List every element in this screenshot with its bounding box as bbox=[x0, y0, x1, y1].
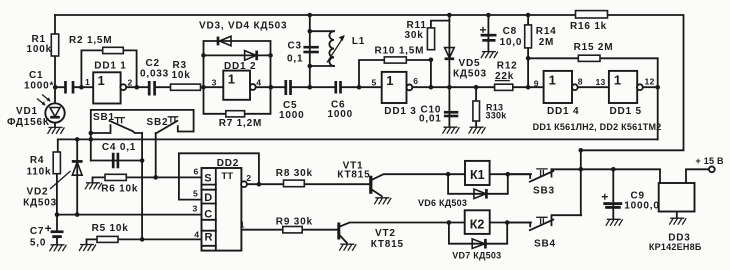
svg-text:VD7 КД503: VD7 КД503 bbox=[452, 251, 501, 261]
svg-text:13: 13 bbox=[596, 77, 606, 87]
capacitor C1 bbox=[24, 70, 73, 94]
svg-text:SB1: SB1 bbox=[93, 112, 115, 123]
junction at 203.5,55.4 bbox=[201, 53, 206, 58]
diode VD5 bbox=[445, 48, 487, 80]
capacitor C6 bbox=[328, 81, 353, 120]
trigger DD2 bbox=[193, 158, 252, 251]
svg-text:5,0: 5,0 bbox=[30, 238, 46, 249]
ground at R6 bbox=[85, 183, 102, 190]
capacitor C8 bbox=[480, 26, 522, 48]
junction at 203.5,87.2 bbox=[201, 85, 206, 90]
svg-text:1: 1 bbox=[85, 77, 90, 87]
pushbutton SB4 bbox=[507, 215, 581, 249]
svg-text:R5 10k: R5 10k bbox=[92, 223, 129, 234]
relay K2 bbox=[465, 210, 490, 234]
svg-text:R15 2M: R15 2M bbox=[574, 42, 614, 53]
svg-text:1: 1 bbox=[386, 73, 393, 88]
svg-text:R12: R12 bbox=[497, 61, 518, 72]
wire R4 top lead bbox=[56, 139, 59, 214]
svg-text:R8 30k: R8 30k bbox=[276, 168, 313, 179]
junction at 580.8,169.3 bbox=[579, 167, 584, 172]
svg-text:5: 5 bbox=[372, 77, 377, 87]
pushbutton SB3 bbox=[508, 169, 555, 197]
junction at 507.2,222.5 bbox=[505, 220, 510, 225]
svg-text:330k: 330k bbox=[486, 110, 508, 120]
resistor R2 bbox=[69, 35, 123, 54]
resistor R9 bbox=[276, 217, 313, 233]
svg-text:SB2: SB2 bbox=[147, 117, 169, 128]
junction at 309.8,87.2 bbox=[308, 85, 313, 90]
junction at 142.1,239.4 bbox=[140, 237, 145, 242]
svg-text:R16 1k: R16 1k bbox=[570, 21, 607, 32]
svg-text:DD1 К561ЛН2, DD2 К561ТМ2: DD1 К561ЛН2, DD2 К561ТМ2 bbox=[533, 122, 662, 132]
junction at 449.4,15 bbox=[447, 13, 452, 18]
svg-text:2M: 2M bbox=[539, 37, 555, 48]
svg-text:C4 0,1: C4 0,1 bbox=[102, 142, 136, 153]
svg-text:R10 1,5M: R10 1,5M bbox=[375, 45, 425, 56]
svg-text:6: 6 bbox=[194, 167, 199, 177]
svg-text:2: 2 bbox=[128, 78, 133, 88]
capacitor C2 bbox=[140, 58, 169, 96]
svg-text:КР142ЕН8Б: КР142ЕН8Б bbox=[649, 242, 702, 252]
svg-text:R4: R4 bbox=[30, 155, 44, 166]
ground under R13 bbox=[469, 127, 486, 134]
svg-text:VT2: VT2 bbox=[375, 228, 396, 239]
wire R1 vertical lead bbox=[54, 15, 56, 87]
wire K2 row bbox=[449, 223, 531, 244]
capacitor C7 bbox=[30, 215, 64, 249]
svg-text:2: 2 bbox=[246, 173, 251, 183]
ground under C8 bbox=[481, 52, 498, 59]
junction at 309.8,66 bbox=[308, 64, 313, 69]
wire VD3 VD4 antiparallel loop bbox=[204, 41, 271, 87]
resistor R15 bbox=[574, 42, 614, 61]
regulator DD3 bbox=[649, 183, 702, 252]
svg-text:DD1 2: DD1 2 bbox=[224, 61, 256, 72]
ground under C9 bbox=[606, 219, 623, 226]
svg-text:SB3: SB3 bbox=[533, 186, 555, 197]
junction at 57,214.6 bbox=[55, 212, 60, 217]
junction at 430.9,59.8 bbox=[429, 58, 434, 63]
svg-text:КТ815: КТ815 bbox=[371, 239, 404, 250]
wire L1 C3 tank branch bbox=[310, 15, 334, 87]
inductor L1 bbox=[327, 31, 365, 66]
junction at 270.5,55.4 bbox=[268, 53, 273, 58]
junction at 90.8,133 bbox=[89, 131, 94, 136]
svg-text:9: 9 bbox=[534, 78, 539, 88]
svg-text:C3: C3 bbox=[288, 41, 302, 52]
wire C9 branch bbox=[612, 169, 614, 218]
junction at 55.2,87.2 bbox=[53, 85, 58, 90]
svg-text:1: 1 bbox=[240, 220, 245, 230]
svg-text:12: 12 bbox=[645, 76, 655, 86]
svg-text:К1: К1 bbox=[470, 168, 485, 182]
svg-text:0,1: 0,1 bbox=[287, 54, 303, 65]
junction at 359,87.2 bbox=[357, 85, 362, 90]
junction at 476.1,87.2 bbox=[474, 85, 479, 90]
wire DD2 R input line bbox=[118, 238, 202, 240]
resistor R8 bbox=[276, 168, 313, 187]
svg-text:3: 3 bbox=[193, 203, 198, 213]
resistor R1 bbox=[27, 34, 59, 56]
svg-text:VD3, VD4 КД503: VD3, VD4 КД503 bbox=[199, 21, 287, 32]
junction at 580.8,150.3 bbox=[579, 148, 584, 153]
wire regulated supply run bbox=[552, 169, 709, 183]
junction at 77.2,214.6 bbox=[75, 212, 80, 217]
svg-text:4: 4 bbox=[256, 77, 261, 87]
svg-text:КД503: КД503 bbox=[23, 198, 57, 209]
svg-text:DD1 4: DD1 4 bbox=[547, 106, 579, 117]
wire top supply rail bbox=[55, 15, 684, 150]
svg-text:DD2: DD2 bbox=[217, 158, 239, 169]
zener diode VD2 bbox=[23, 161, 83, 208]
wire VD2 branch bbox=[76, 139, 78, 214]
pushbutton SB1 bbox=[91, 112, 142, 133]
svg-text:C8: C8 bbox=[503, 26, 517, 37]
svg-text:R9 30k: R9 30k bbox=[276, 217, 313, 228]
wire DD2 output 2 to R8 bbox=[259, 183, 369, 185]
inverter DD1.2 bbox=[212, 61, 262, 100]
junction at 77.2,139.4 bbox=[75, 137, 80, 142]
svg-text:10,0: 10,0 bbox=[500, 37, 523, 48]
junction at 448.1,174.2 bbox=[446, 172, 451, 177]
capacitor C5 bbox=[279, 80, 304, 121]
svg-text:VD2: VD2 bbox=[27, 187, 49, 198]
wire VT1 collector and emitter bbox=[372, 174, 448, 196]
svg-text:1000: 1000 bbox=[328, 109, 353, 120]
capacitor C9 bbox=[602, 191, 660, 212]
junction at 90.8,139.4 bbox=[89, 137, 94, 142]
svg-text:3: 3 bbox=[212, 78, 217, 88]
svg-text:SB4: SB4 bbox=[534, 239, 556, 250]
svg-text:КД503: КД503 bbox=[453, 69, 487, 80]
ground at VT1 emitter bbox=[374, 198, 391, 205]
wire R7 feedback loop bbox=[204, 87, 271, 114]
svg-text:D: D bbox=[204, 192, 212, 204]
svg-text:DD1 1: DD1 1 bbox=[94, 61, 126, 72]
resistor R7 bbox=[219, 111, 262, 129]
wire R14 branch bbox=[527, 15, 529, 87]
capacitor C4 bbox=[102, 142, 136, 168]
wire VD5 vertical bbox=[448, 15, 450, 87]
wire K1 row bbox=[448, 174, 531, 194]
wire R2 feedback loop bbox=[81, 50, 136, 87]
svg-text:L1: L1 bbox=[352, 36, 365, 47]
resistor R3 bbox=[171, 60, 201, 90]
capacitor C3 bbox=[287, 41, 319, 65]
svg-text:1000: 1000 bbox=[279, 110, 304, 121]
svg-text:КТ815: КТ815 bbox=[337, 169, 370, 180]
junction at 613.3,169.3 bbox=[611, 167, 616, 172]
junction at 309.8,15 bbox=[308, 13, 313, 18]
svg-text:C7: C7 bbox=[30, 226, 44, 237]
wire SB2 output vertical bbox=[155, 133, 157, 177]
wire DD2 S input line bbox=[126, 176, 201, 178]
wire DD3 ground stub bbox=[676, 212, 678, 218]
svg-text:100k: 100k bbox=[27, 44, 52, 55]
resistor R6 bbox=[93, 174, 139, 194]
svg-text:R7 1,2M: R7 1,2M bbox=[219, 118, 262, 129]
svg-text:S: S bbox=[204, 173, 211, 185]
wire R10 R11 node bbox=[359, 21, 449, 88]
capacitor C10 bbox=[419, 105, 458, 125]
svg-text:0,033: 0,033 bbox=[140, 69, 169, 80]
svg-text:4: 4 bbox=[194, 230, 199, 240]
wire main signal line segments bbox=[55, 86, 658, 88]
ground under VD1 bbox=[48, 127, 65, 133]
wire R15 feedback run bbox=[528, 58, 658, 139]
wire C4 run bbox=[91, 160, 142, 162]
svg-text:DD1 5: DD1 5 bbox=[610, 106, 642, 117]
wire VT2 collector and emitter bbox=[340, 223, 449, 243]
junction at 488.4,15 bbox=[486, 13, 491, 18]
wire C8 branch bbox=[487, 15, 489, 51]
junction at 528.1,15 bbox=[526, 13, 531, 18]
resistor R5 bbox=[87, 223, 129, 244]
svg-text:VD1: VD1 bbox=[16, 106, 38, 117]
junction at 528.1,58.3 bbox=[526, 56, 531, 61]
svg-text:C2: C2 bbox=[146, 58, 160, 69]
junction at 136.8,87.2 bbox=[135, 85, 140, 90]
wire DD2 C input line bbox=[57, 214, 202, 216]
junction at 528.1,87.2 bbox=[526, 85, 531, 90]
junction at 270.8,87.2 bbox=[269, 85, 274, 90]
svg-text:ФД156К: ФД156К bbox=[7, 117, 50, 128]
svg-text:1: 1 bbox=[98, 73, 105, 88]
ground at VT2 emitter bbox=[339, 244, 356, 251]
diode VD6 bbox=[418, 189, 486, 208]
svg-text:C1: C1 bbox=[29, 70, 43, 81]
resistor R14 bbox=[525, 25, 557, 48]
svg-text:1000*: 1000* bbox=[24, 81, 54, 92]
wire supply drop vertical bbox=[580, 150, 582, 215]
diode VD3 bbox=[218, 36, 231, 46]
op-amp-style inverter DD1.1 bbox=[85, 61, 133, 104]
svg-text:10k: 10k bbox=[172, 70, 191, 81]
resistor R11 bbox=[405, 20, 435, 50]
svg-text:+ 15 В: + 15 В bbox=[696, 156, 725, 166]
relay K1 bbox=[465, 161, 490, 185]
svg-text:30k: 30k bbox=[405, 30, 424, 41]
svg-text:8: 8 bbox=[578, 76, 583, 86]
ground under C10 bbox=[443, 127, 460, 134]
svg-text:C: C bbox=[204, 208, 212, 220]
svg-text:6: 6 bbox=[413, 76, 418, 86]
svg-text:R: R bbox=[205, 232, 213, 244]
wire SB1 output vertical bbox=[141, 133, 143, 239]
resistor R12 bbox=[495, 61, 518, 91]
terminal +15V bbox=[696, 156, 725, 172]
resistor R16 bbox=[570, 11, 608, 32]
wire DD2 feedback loop bbox=[179, 153, 259, 199]
svg-text:R6 10k: R6 10k bbox=[101, 184, 138, 195]
resistor R4 bbox=[27, 152, 61, 178]
wire R13 branch bbox=[475, 87, 477, 126]
wire long horizontal bus bbox=[58, 138, 658, 140]
svg-text:R2 1,5M: R2 1,5M bbox=[69, 35, 112, 46]
ground at R5 bbox=[79, 245, 96, 252]
diode VD7 bbox=[452, 239, 501, 261]
svg-text:R14: R14 bbox=[536, 26, 557, 37]
resistor R10 bbox=[375, 45, 425, 63]
inverter DD1.5 bbox=[596, 71, 655, 117]
svg-text:VD6 КД503: VD6 КД503 bbox=[418, 198, 467, 208]
transistor VT1 bbox=[337, 160, 372, 194]
ground under C7 bbox=[50, 245, 67, 252]
svg-text:110k: 110k bbox=[27, 167, 52, 178]
wire DD2 output 1 to R9 bbox=[241, 229, 337, 231]
junction at 155.7,177.4 bbox=[153, 175, 158, 180]
svg-text:1: 1 bbox=[549, 72, 556, 87]
junction at 448.9,222.5 bbox=[447, 220, 452, 225]
inverter DD1.3 bbox=[372, 72, 419, 117]
junction at 81.4,87.2 bbox=[79, 85, 84, 90]
wire SB1 SB2 bracket bbox=[91, 110, 194, 161]
inverter DD1.4 bbox=[534, 71, 583, 117]
pushbutton SB2 bbox=[147, 117, 194, 134]
junction at 507.8,174.2 bbox=[506, 172, 511, 177]
junction at 449.4,87.2 bbox=[447, 85, 452, 90]
svg-text:TT: TT bbox=[221, 171, 233, 182]
resistor R13 bbox=[473, 101, 507, 121]
svg-text:DD1 3: DD1 3 bbox=[384, 106, 416, 117]
svg-text:0,01: 0,01 bbox=[419, 114, 442, 125]
svg-text:К2: К2 bbox=[470, 217, 485, 231]
wire C10 branch bbox=[448, 87, 450, 126]
junction at 309.8,31.2 bbox=[308, 29, 313, 34]
svg-text:1: 1 bbox=[614, 72, 621, 87]
diode VD4 bbox=[199, 21, 287, 61]
junction at 142.1,160.5 bbox=[140, 158, 145, 163]
transistor VT2 bbox=[337, 223, 404, 250]
junction at 657.7,87.2 bbox=[655, 85, 660, 90]
svg-text:VD5: VD5 bbox=[459, 58, 481, 69]
photodiode VD1 bbox=[7, 87, 65, 128]
junction at 258.9,184.2 bbox=[257, 182, 262, 187]
svg-text:1000,0: 1000,0 bbox=[624, 201, 659, 212]
junction at 430.9,87.2 bbox=[429, 85, 434, 90]
svg-text:1: 1 bbox=[228, 72, 235, 87]
ground under DD3 bbox=[669, 218, 686, 225]
svg-text:5: 5 bbox=[193, 189, 198, 199]
